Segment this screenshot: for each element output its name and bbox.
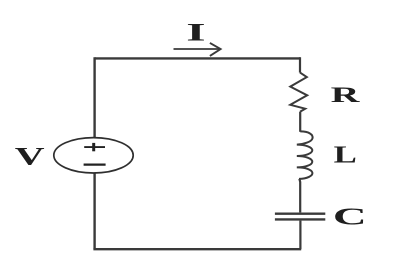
wire right top stub <box>299 57 301 72</box>
svg-text:I: I <box>186 17 206 46</box>
wire resistor-to-inductor <box>299 112 301 132</box>
wire inductor-to-capacitor <box>298 179 301 213</box>
wire left lower <box>93 173 95 249</box>
svg-text:C: C <box>333 204 367 231</box>
svg-text:V: V <box>15 141 46 170</box>
voltage source V ellipse <box>54 138 133 173</box>
wire top <box>95 57 300 59</box>
svg-text:R: R <box>331 82 361 107</box>
resistor R <box>290 73 307 112</box>
wire capacitor-to-bottom <box>299 221 301 250</box>
svg-text:L: L <box>334 143 357 169</box>
minus sign <box>84 164 106 166</box>
wire bottom <box>93 248 301 250</box>
wire left upper <box>93 57 95 138</box>
current arrow <box>174 48 220 50</box>
capacitor C top plate <box>275 212 325 214</box>
inductor L <box>297 131 313 179</box>
plus sign <box>84 146 105 148</box>
capacitor C bottom plate <box>275 218 325 220</box>
